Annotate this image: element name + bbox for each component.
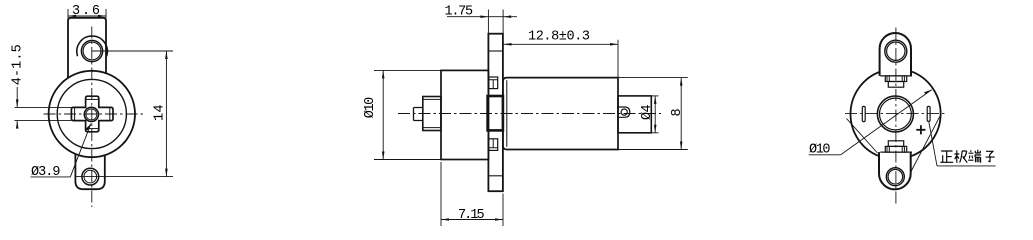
bottom crimp step ticks bbox=[887, 146, 904, 152]
front housing rectangle bbox=[441, 70, 488, 159]
label text 正极端子 (drawn as strokes) bbox=[940, 150, 994, 163]
leader diagonal for Ø3.9 bbox=[70, 124, 91, 177]
top tab hole boss arc bbox=[77, 36, 108, 56]
dimension 12.8±0.3 (can length) bbox=[504, 40, 619, 78]
top tab hole outer circle bbox=[81, 40, 102, 61]
bottom tab hole inner circle bbox=[888, 169, 903, 184]
dim 3.6 dimension line bbox=[68, 15, 106, 17]
dim 3.6 extension line right bbox=[105, 9, 107, 22]
plus (positive) mark bbox=[916, 125, 925, 134]
left terminal slot bbox=[862, 106, 865, 121]
svg-text:8: 8 bbox=[670, 108, 685, 116]
bottom mounting tab outline bbox=[75, 155, 104, 190]
flange center hub (bold) bbox=[488, 96, 503, 130]
bottom tab sides bbox=[879, 152, 911, 189]
dim 12.8 dimension line bbox=[504, 43, 619, 45]
dim 14 arrow bottom bbox=[165, 169, 168, 177]
dim 1.75 dimension line bbox=[447, 16, 517, 18]
dim Ø10 arrow bottom bbox=[382, 152, 385, 160]
dim 1.75 extension line right bbox=[502, 10, 504, 34]
left view vertical centerline bbox=[91, 27, 93, 208]
extension line from top hole center (for 14 dim) bbox=[92, 50, 173, 52]
dim 4-1.5 extension line top bbox=[15, 106, 72, 108]
dim Ø4 arrow bottom bbox=[654, 125, 657, 133]
leader diagonal 正极端子 bbox=[929, 122, 937, 166]
dimension 3.6 (tab width) bbox=[68, 9, 106, 22]
dim 12.8 arrow right bbox=[610, 43, 618, 46]
leader arrow Ø10 bbox=[924, 90, 932, 95]
flange plate side view bbox=[488, 34, 503, 192]
motor can outline bbox=[503, 78, 618, 150]
dim 3.6 arrow right bbox=[98, 15, 106, 18]
leader diagonal Ø10 bbox=[841, 90, 932, 155]
dimension Ø4 (rear boss) bbox=[651, 96, 658, 133]
cross arm end cap line right bbox=[109, 107, 111, 120]
worm gear root line bottom bbox=[423, 127, 441, 129]
dim 7.15 extension line right bbox=[502, 194, 504, 227]
dim 7.15 arrow left bbox=[441, 218, 449, 221]
leader underline for Ø3.9 bbox=[31, 176, 71, 178]
left view horizontal centerline bbox=[44, 113, 144, 115]
label 正极端子 with leader bbox=[929, 122, 996, 166]
dim 12.8 extension line right bbox=[617, 40, 619, 78]
dim Ø10 arrow top bbox=[382, 70, 385, 78]
dim 7.15 dimension line bbox=[441, 219, 503, 221]
bottom tab hole outer circle bbox=[82, 168, 99, 185]
dim 1.75 arrow right (outside) bbox=[503, 15, 511, 18]
dim 8 extension line bottom bbox=[618, 149, 688, 151]
dim 8 arrow top bbox=[680, 78, 683, 86]
worm gear on shaft bbox=[423, 97, 441, 131]
extension line from bottom hole center (for 14 dim) bbox=[75, 176, 173, 178]
svg-text:4-1.5: 4-1.5 bbox=[10, 44, 25, 85]
rear body outer circle right arc bbox=[911, 72, 941, 157]
rear bearing boss inner circle bbox=[880, 98, 912, 130]
diagonal line right (to bottom tab) bbox=[911, 114, 941, 171]
dim 4-1.5 arrow upper bbox=[16, 99, 19, 107]
top tab hole inner circle bbox=[83, 42, 101, 60]
cross-shaped bearing boss outline bbox=[71, 96, 113, 132]
right view vertical centerline bbox=[895, 28, 897, 207]
svg-text:14: 14 bbox=[152, 104, 167, 121]
svg-text:Ø10: Ø10 bbox=[809, 143, 831, 158]
dim Ø4 extension stub bottom bbox=[651, 132, 658, 134]
top tab hole inner circle bbox=[887, 42, 905, 60]
dimension Ø10 (housing diameter) bbox=[374, 70, 441, 159]
dim 8 extension line top bbox=[618, 77, 688, 79]
dim Ø10 dimension line bbox=[382, 70, 384, 159]
dim 14 dimension line bbox=[165, 51, 167, 177]
can crimp line bbox=[506, 80, 508, 147]
rear shaft tip circle bbox=[621, 109, 627, 115]
dim 4-1.5 arrow lower bbox=[16, 121, 19, 129]
diagonal line left (to bottom tab) bbox=[847, 119, 878, 154]
body outer circle bbox=[49, 71, 135, 157]
leader arrow Ø3.9 bbox=[85, 124, 91, 131]
top crimp step inner rect bbox=[888, 82, 903, 88]
dim 7.15 extension line left bbox=[440, 162, 442, 226]
bottom crimp step outer rect bbox=[885, 146, 906, 152]
svg-text:12.8±0.3: 12.8±0.3 bbox=[528, 30, 590, 45]
dim 14 arrow top bbox=[165, 51, 168, 59]
top tab bottom line bbox=[880, 75, 912, 77]
shaft hole outer circle bbox=[84, 107, 98, 121]
flange bottom hole inner line bbox=[489, 139, 498, 148]
worm gear root line top bbox=[423, 98, 441, 100]
top crimp step ticks bbox=[887, 76, 904, 82]
flange top tab line bbox=[488, 50, 503, 52]
rear bearing boss outer circle bbox=[877, 96, 913, 132]
dim 1.75 extension line left bbox=[487, 10, 489, 34]
dimension 7.15 (front length) bbox=[441, 162, 503, 226]
bottom crimp step inner rect bbox=[888, 141, 903, 147]
middle view horizontal centerline bbox=[398, 113, 661, 115]
body inner circle bbox=[57, 79, 126, 148]
dim 3.6 arrow left bbox=[68, 15, 76, 18]
svg-text:1.75: 1.75 bbox=[445, 5, 474, 20]
leader underline Ø10 bbox=[809, 154, 841, 156]
dim 4-1.5 dimension line upper bbox=[16, 87, 18, 107]
bottom tab top line bbox=[880, 151, 912, 153]
dim Ø4 arrow top bbox=[654, 96, 657, 104]
top tab hole outer circle bbox=[885, 40, 907, 62]
svg-text:Ø4: Ø4 bbox=[640, 104, 655, 120]
shaft bbox=[414, 108, 424, 121]
dimension 4-1.5 (cross arm slots) bbox=[15, 87, 72, 129]
flange bottom tab line bbox=[488, 175, 503, 177]
cross arm end cap line top bbox=[86, 98, 99, 100]
right view horizontal centerline bbox=[845, 113, 947, 115]
svg-text:7.15: 7.15 bbox=[458, 208, 485, 223]
dim 7.15 arrow right bbox=[495, 218, 503, 221]
top crimp step outer rect bbox=[885, 76, 906, 82]
rear bearing boss rect bbox=[618, 96, 651, 133]
flange top hole rect bbox=[489, 77, 498, 89]
dim 12.8 arrow left bbox=[504, 43, 512, 46]
cross arm end cap line bottom bbox=[86, 128, 99, 130]
dimension 1.75 (flange thickness) bbox=[447, 10, 517, 34]
svg-text:3.6: 3.6 bbox=[72, 4, 100, 19]
right terminal slot bbox=[927, 106, 930, 121]
top tab sides bbox=[880, 33, 911, 76]
dim Ø10 extension line bottom bbox=[374, 159, 441, 161]
bottom tab hole outer circle bbox=[886, 168, 904, 186]
bottom tab hole inner circle bbox=[84, 170, 97, 183]
dim 3.6 extension line left bbox=[67, 9, 69, 22]
dim Ø4 extension stub top bbox=[651, 95, 658, 97]
svg-text:Ø10: Ø10 bbox=[363, 97, 378, 119]
leader underline 正极端子 bbox=[937, 165, 996, 167]
top mounting tab outline bbox=[68, 18, 106, 78]
dim 8 dimension line bbox=[680, 78, 682, 150]
shaft hole inner circle bbox=[86, 109, 97, 120]
dim 8 arrow bottom bbox=[680, 142, 683, 150]
flange bottom hole rect bbox=[489, 139, 498, 151]
dim Ø10 extension line top bbox=[374, 69, 441, 71]
svg-text:Ø3.9: Ø3.9 bbox=[31, 165, 61, 180]
label Ø10 with leader (right view) bbox=[809, 90, 932, 155]
flange top hole inner line bbox=[489, 80, 498, 89]
dimension 14 (tab hole centers distance) bbox=[165, 51, 167, 177]
dim 4-1.5 dimension line lower bbox=[16, 121, 18, 129]
label Ø3.9 with leader to shaft boss bbox=[31, 124, 92, 177]
rear body outer circle left arc bbox=[850, 72, 880, 157]
cross arm end cap line left bbox=[74, 107, 76, 120]
dim 4-1.5 extension line bottom bbox=[15, 120, 72, 122]
dim 1.75 arrow left (outside) bbox=[480, 15, 488, 18]
rear shaft tip bracket bbox=[618, 107, 630, 117]
dim Ø4 dimension line bbox=[654, 96, 656, 133]
dimension 8 (can diameter) bbox=[618, 78, 688, 150]
